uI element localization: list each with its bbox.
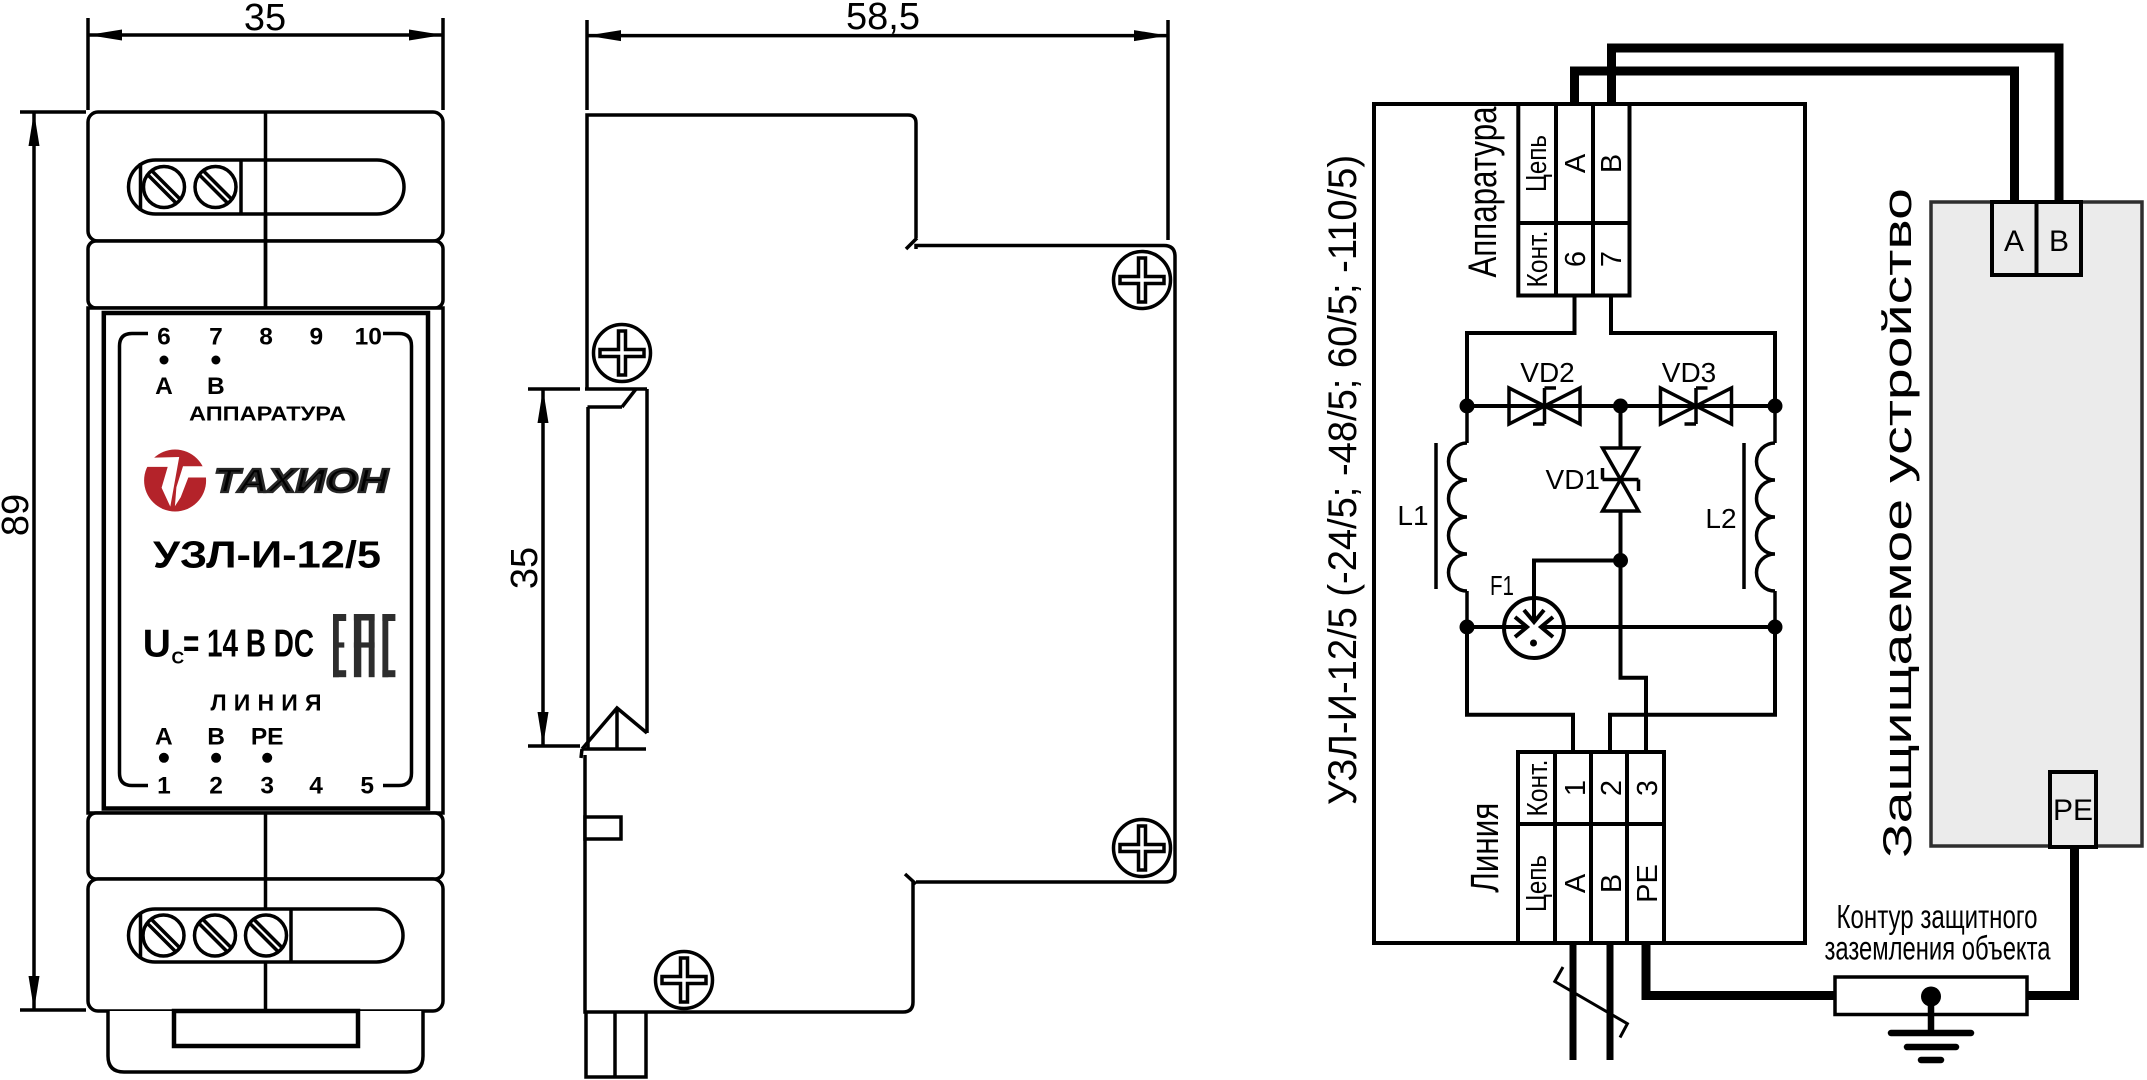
inductor L1 [1436,406,1467,627]
svg-text:Л И Н И Я: Л И Н И Я [211,690,322,716]
edge tick top step [906,238,917,249]
inner bracket right [383,334,412,786]
svg-text:U: U [143,623,171,666]
SIDE VIEW [504,0,1175,1077]
terminal PE box [2050,772,2096,847]
thick wire B to protected device [1612,48,2060,204]
TVS diode VD3 [1661,388,1732,424]
svg-text:РЕ: РЕ [1632,864,1664,903]
svg-text:Цепь: Цепь [1521,135,1553,192]
bottom bus left segment [1467,625,1526,629]
svg-text:L2: L2 [1705,503,1736,534]
ground electrode [1835,977,2027,1015]
svg-text:8: 8 [259,324,273,351]
top terminal capsule [129,160,405,214]
svg-text:А: А [2004,225,2024,258]
svg-text:В: В [2049,225,2069,258]
screw top 1 [144,167,185,208]
label frame (thick) [104,313,428,809]
terminal B box [2037,202,2082,275]
svg-text:VD3: VD3 [1662,357,1716,388]
device body: lower strip section [88,813,443,879]
svg-text:35: 35 [244,0,286,39]
svg-text:3: 3 [260,772,274,799]
dimension 89 (left height) [0,112,86,1010]
bottom tab inner rect [174,1011,358,1046]
FRONT VIEW [0,0,443,1072]
svg-text:Аппаратура: Аппаратура [1461,106,1505,278]
svg-text:6: 6 [157,324,171,351]
svg-text:Конт.: Конт. [1522,760,1554,817]
svg-text:= 14 В DC: = 14 В DC [183,623,314,666]
node bottom-right [1768,620,1783,635]
screw top 2 [195,167,236,208]
screw bottom 2 [195,915,236,956]
upper terminal table [1518,104,1629,296]
bottom terminal capsule [129,909,404,962]
svg-text:7: 7 [1596,251,1628,267]
dimension 35 (left, DIN rail) [504,389,580,746]
svg-text:А: А [155,373,173,400]
svg-text:ТАХИОН: ТАХИОН [214,462,389,499]
TVS diode VD1 (vertical) [1603,448,1639,511]
svg-text:РЕ: РЕ [2053,794,2093,827]
svg-text:1: 1 [157,772,171,799]
small latch rect on left edge [585,817,621,839]
edge tick bottom step [905,874,916,884]
svg-text:РЕ: РЕ [251,724,284,751]
inductor L2 [1744,406,1775,627]
svg-text:89: 89 [0,494,37,536]
device body: label section sides [88,308,443,813]
svg-text:1: 1 [1560,780,1592,796]
VD1 branch wire [1619,406,1623,448]
svg-text:А: А [155,724,173,751]
thick wire PE to ground bar [1646,943,1835,996]
bottom tabs [586,1012,646,1077]
svg-text:35: 35 [504,547,546,589]
svg-text:5: 5 [360,772,374,799]
cable break mark [1555,967,1628,1038]
thick wire A to protected device [1575,71,2015,204]
wire 7 down-right [1611,296,1775,407]
node bottom-left [1460,620,1475,635]
thick wire PE from device [2028,847,2075,996]
svg-text:Цепь: Цепь [1521,855,1553,912]
TVS diode VD2 [1509,388,1580,424]
screw side bottom-right [1114,820,1171,877]
screw bottom 3 [246,915,287,956]
dots 1,2,3 [159,753,169,763]
center vertical line top [264,112,268,308]
device boundary box [1374,104,1805,943]
screw side bottom-left [656,952,713,1009]
svg-text:2: 2 [1596,780,1628,796]
svg-text:Защищаемое устройство: Защищаемое устройство [1876,188,1920,858]
svg-text:УЗЛ-И-12/5 (-24/5; -48/5; 60/5: УЗЛ-И-12/5 (-24/5; -48/5; 60/5; -110/5) [1321,155,1365,805]
center vertical line bottom [264,813,268,1011]
svg-text:58,5: 58,5 [846,0,920,38]
svg-text:F1: F1 [1490,570,1514,601]
dimension 58,5 (top) [587,0,1168,240]
svg-text:6: 6 [1560,251,1592,267]
svg-text:В: В [207,724,225,751]
dots 6,7 [160,356,169,365]
node mid [1613,553,1628,568]
line wires below (cols 1,2) [1570,943,1577,1060]
svg-text:VD2: VD2 [1520,357,1574,388]
DIN clip top hook [585,387,647,391]
svg-text:УЗЛ-И-12/5: УЗЛ-И-12/5 [153,535,381,577]
svg-text:9: 9 [309,324,323,351]
svg-text:VD1: VD1 [1546,464,1600,495]
svg-text:7: 7 [209,324,223,351]
lower terminal table [1518,752,1664,943]
center line through capsule [264,160,268,308]
svg-text:3: 3 [1632,780,1664,796]
node top-left [1460,399,1475,414]
lower-left column outline [585,755,913,1012]
EAC logo [333,614,395,677]
screw side top-left [594,325,651,382]
svg-text:А: А [1560,153,1592,173]
DIN channel left wall [586,407,590,749]
top bus [1467,404,1775,408]
device body: bottom section [88,879,443,1011]
wire 6 down-left [1467,296,1575,407]
svg-text:2: 2 [209,772,223,799]
svg-text:АППАРАТУРА: АППАРАТУРА [189,404,346,426]
protected device box [1931,202,2142,846]
svg-text:А: А [1560,873,1592,893]
wire node to contact 3 [1621,561,1647,753]
DIN channel inner wall [645,389,649,733]
svg-text:10: 10 [355,324,382,351]
screw bottom 1 [143,915,184,956]
svg-text:L1: L1 [1397,500,1428,531]
svg-text:4: 4 [309,772,323,799]
DIN lower spring clip [582,708,647,749]
screw side top-right [1114,252,1171,309]
bottom bus right segment [1541,625,1775,629]
ground symbol [1928,997,1935,1032]
svg-text:Линия: Линия [1463,803,1507,893]
node top-mid [1613,399,1628,414]
TAHION logo [144,450,389,512]
svg-text:заземления объекта: заземления объекта [1825,930,2051,967]
arrester F1 [1504,561,1621,659]
device body: top section [88,112,443,241]
svg-text:В: В [1596,874,1628,893]
inner bracket left [120,334,149,786]
bottom tab [108,1011,423,1072]
wire VD1 to node [1619,511,1623,561]
svg-text:Конт.: Конт. [1522,231,1554,288]
terminal A box [1992,202,2037,275]
wire left bus to contact 1 [1467,627,1573,752]
svg-text:В: В [1596,154,1628,173]
ground node [1921,987,1941,1007]
node top-right [1768,399,1783,414]
wire right bus to contact 2 [1610,627,1775,752]
dimension 35 (top width) [88,0,443,110]
side profile outline [587,115,916,389]
svg-text:В: В [207,373,225,400]
device body: upper strip section [88,241,443,308]
